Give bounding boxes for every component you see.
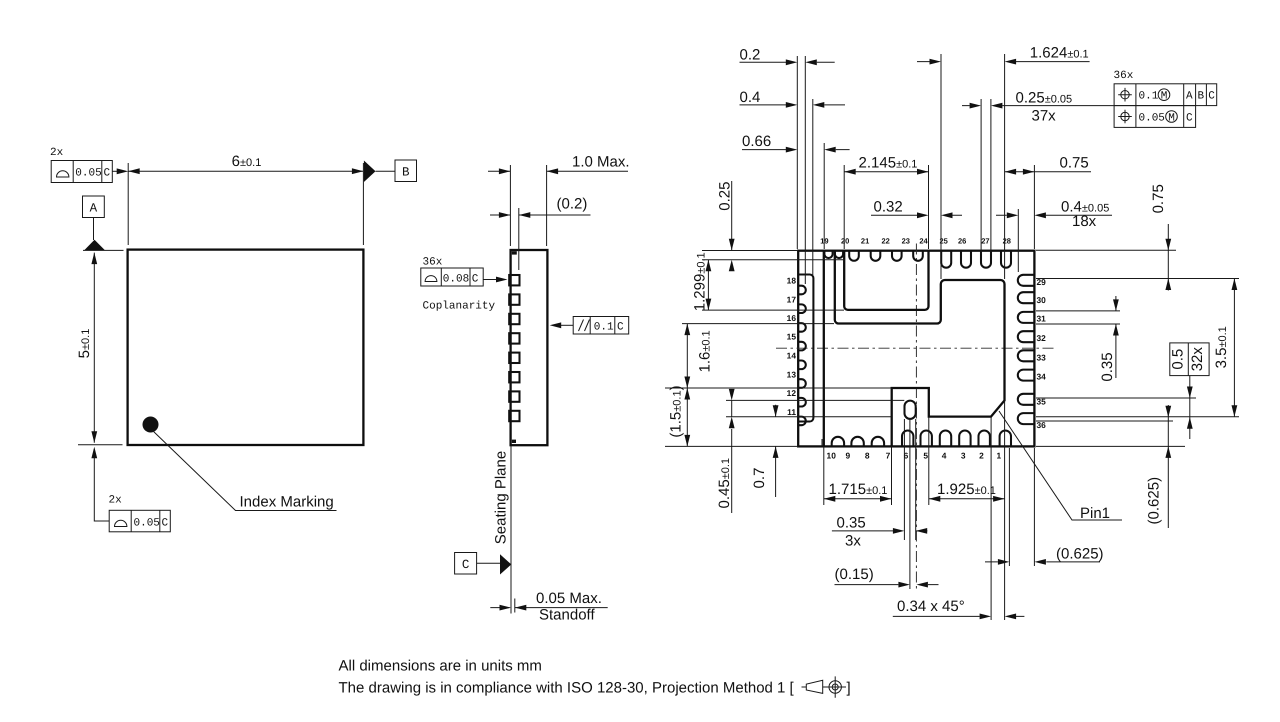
svg-text:Standoff: Standoff	[539, 606, 595, 623]
package body outline (top view)	[128, 250, 364, 445]
extension line pkg top right	[1036, 249, 1176, 251]
exposed pad main outline	[835, 251, 1005, 447]
extension line pad top right	[1036, 278, 1239, 280]
basic dimension 0.5 32x frame	[1170, 343, 1210, 439]
pin 1 leader	[999, 411, 1122, 522]
svg-text:32: 32	[1037, 333, 1047, 343]
svg-text:0.75: 0.75	[1060, 155, 1089, 172]
profile tolerance frame 2x bottom	[91, 447, 170, 532]
internal long slot line	[823, 251, 825, 447]
svg-text:(0.625): (0.625)	[1146, 477, 1163, 525]
datum B triangle	[364, 161, 395, 183]
extension line pin27 left	[980, 99, 982, 254]
svg-text:0.05: 0.05	[75, 168, 101, 180]
svg-text:0.35: 0.35	[1099, 352, 1116, 381]
top pin 24 slot	[913, 251, 923, 261]
svg-text:0.1: 0.1	[1139, 91, 1159, 103]
top pin 21 slot	[849, 251, 859, 261]
extension line oval top	[726, 399, 904, 401]
svg-text:C: C	[1186, 113, 1193, 125]
mold corner mark top	[512, 251, 517, 254]
bottom pin 6 slot	[902, 431, 913, 447]
dimension 0.2	[740, 47, 835, 66]
left pin 12 slot	[798, 398, 806, 407]
right pin 34 slot	[1018, 370, 1035, 381]
left pin 13 slot	[798, 379, 806, 388]
svg-text:C: C	[617, 321, 624, 333]
extension line top-left corner	[83, 249, 124, 251]
extension line pad A left	[843, 165, 845, 249]
side view leads (8 squares)	[509, 275, 519, 421]
extension line slot depth 0.25	[702, 259, 845, 261]
top pin 19 slot	[824, 251, 832, 258]
datum A label	[83, 196, 105, 218]
dimension 1.624±0.1	[917, 45, 1090, 65]
extension line pkg right down	[1033, 448, 1035, 566]
dimension (1.5±0.1)	[668, 385, 691, 446]
extension line pad A bottom right	[1036, 310, 1120, 312]
extension line pad right down	[1004, 401, 1006, 621]
extension line pkg bottom left	[665, 445, 797, 447]
svg-text:13: 13	[787, 369, 797, 379]
svg-text:1.0 Max.: 1.0 Max.	[572, 154, 630, 171]
extension line pkg bottom right	[1036, 445, 1185, 447]
bottom pin 2 slot	[979, 431, 990, 447]
extension line pad A right	[928, 165, 930, 249]
svg-text:0.1: 0.1	[594, 321, 614, 333]
svg-text:26: 26	[958, 237, 966, 246]
dimension (0.625) right vertical	[1146, 405, 1172, 528]
extension line strip edge 0.4	[812, 99, 814, 275]
extension line pin cap 0.2	[804, 56, 806, 284]
extension line pin36 center	[1036, 420, 1173, 422]
svg-text:0.2: 0.2	[740, 47, 761, 64]
datum C triangle	[477, 554, 512, 574]
dimension 0.45±0.1	[716, 389, 735, 513]
extension line pin29 cap	[1017, 209, 1019, 272]
svg-text:C: C	[104, 168, 111, 180]
extension line pad B bottom	[682, 323, 834, 325]
center line vertical	[915, 244, 917, 592]
dimension 0.4	[740, 89, 846, 108]
extension line oval left	[903, 419, 905, 540]
svg-text:2x: 2x	[109, 495, 123, 507]
dimension 0.25 left	[717, 181, 735, 271]
extension line tab right down	[928, 417, 930, 505]
package body outline (side view)	[511, 250, 548, 445]
svg-text:12: 12	[787, 388, 797, 398]
left pin 18 slot	[798, 286, 806, 295]
right pin 36 slot	[1018, 413, 1035, 424]
svg-text:3: 3	[961, 451, 966, 461]
dimension 0.75 right vertical	[1150, 184, 1171, 290]
oval slot near pin 6	[905, 401, 916, 419]
extension line slot line down	[823, 446, 825, 505]
dimension 0.7	[751, 405, 779, 497]
extension line oval center	[909, 419, 911, 589]
position tolerance frame 36x	[1114, 70, 1217, 127]
svg-text:34: 34	[1037, 372, 1047, 382]
mold corner mark bottom	[512, 440, 516, 443]
svg-text:M: M	[1168, 113, 1175, 125]
svg-text:0.08: 0.08	[443, 273, 469, 285]
datum C label	[455, 553, 477, 575]
svg-text:0.75: 0.75	[1150, 184, 1167, 213]
svg-text:M: M	[1161, 91, 1168, 103]
svg-text:C: C	[162, 517, 169, 529]
svg-text:18: 18	[787, 276, 797, 286]
svg-text:27: 27	[981, 237, 989, 246]
svg-text:0.5: 0.5	[1170, 349, 1187, 370]
dimension (0.625) bottom	[985, 546, 1104, 565]
svg-text:0.35: 0.35	[837, 515, 866, 532]
extension line pad left 1.624	[940, 54, 942, 279]
dimension 0.25±0.05 37x	[962, 90, 1114, 125]
svg-text:16: 16	[787, 313, 797, 323]
right pin 33 slot	[1018, 350, 1035, 361]
package outline (bottom view)	[798, 251, 1034, 447]
right pin 30 slot	[1018, 292, 1035, 303]
extension line above right corner	[362, 163, 364, 245]
svg-text:36: 36	[1037, 420, 1047, 430]
extension line top edge left	[702, 250, 797, 252]
svg-text:0.32: 0.32	[874, 199, 903, 216]
svg-text:0.25: 0.25	[717, 181, 734, 210]
svg-text:10: 10	[827, 451, 837, 461]
datum B label	[395, 160, 417, 182]
extension line pad right 1.624	[1004, 54, 1006, 279]
extension line pad B bottom right	[1036, 323, 1120, 325]
svg-text:32x: 32x	[1189, 347, 1206, 372]
top pin 26 slot	[961, 251, 971, 268]
svg-text:B: B	[1198, 91, 1205, 103]
dimension 0.32	[871, 199, 962, 219]
dimension (0.15)	[835, 566, 939, 588]
dimension 0.66	[742, 133, 850, 153]
dimension 0.34 x 45 chamfer	[893, 598, 1025, 619]
top pin 23 slot	[892, 251, 902, 261]
svg-text:0.7: 0.7	[751, 468, 768, 489]
svg-text:5: 5	[923, 451, 928, 461]
svg-text:18x: 18x	[1072, 213, 1097, 230]
svg-text:(0.15): (0.15)	[835, 566, 874, 583]
left pin 11 slot	[798, 417, 806, 426]
svg-text:A: A	[1186, 91, 1193, 103]
svg-text:0.05: 0.05	[134, 517, 160, 529]
svg-text:4: 4	[942, 451, 947, 461]
dimension 0.35 3x	[832, 515, 928, 550]
svg-text:37x: 37x	[1032, 108, 1057, 125]
dimension 0.4±0.05 18x	[996, 199, 1112, 231]
extension line tab top	[665, 387, 892, 389]
left pin 16 slot	[798, 323, 806, 332]
index marking leader	[153, 431, 337, 511]
seating plane line	[510, 445, 512, 613]
svg-text:33: 33	[1037, 352, 1047, 362]
right pin 32 slot	[1018, 331, 1035, 342]
svg-text:23: 23	[902, 237, 910, 246]
svg-text:20: 20	[841, 237, 849, 246]
dimension 1.299±0.1	[692, 252, 712, 311]
dimension 0.75 top	[1005, 155, 1091, 175]
dimension 1.925±0.1	[929, 481, 1005, 502]
svg-text:All dimensions are in units mm: All dimensions are in units mm	[339, 658, 542, 675]
dimension 1.6±0.1	[684, 324, 713, 388]
svg-text:Seating Plane: Seating Plane	[493, 451, 510, 544]
svg-text:17: 17	[787, 294, 797, 304]
left pin 15 slot	[798, 342, 806, 351]
svg-text:0.05: 0.05	[1139, 113, 1165, 125]
parallelism frame //|0.1|C	[550, 317, 629, 335]
extension line pad A bottom	[702, 309, 844, 311]
left pin 17 slot	[798, 304, 806, 313]
svg-text:0.4: 0.4	[740, 89, 761, 106]
svg-text:B: B	[402, 165, 410, 179]
left exposed pad strip	[798, 275, 813, 422]
dimension 5±0.1	[76, 253, 97, 443]
svg-text:22: 22	[882, 237, 890, 246]
dimension 3.5±0.1	[1213, 279, 1237, 417]
svg-text:]: ]	[847, 680, 851, 697]
extension line tab left down	[891, 446, 893, 505]
dimension 6±0.1	[128, 153, 363, 174]
svg-text:(0.625): (0.625)	[1056, 546, 1104, 563]
extension line pin1 right down	[1008, 448, 1010, 566]
dimension 1.0 Max.	[488, 154, 630, 175]
projection method symbol	[802, 676, 851, 697]
dimension (0.2)	[490, 196, 591, 218]
svg-text:0.05 Max.: 0.05 Max.	[536, 590, 602, 607]
internal slot foot step	[821, 439, 823, 446]
bottom pin 8 slot	[872, 437, 884, 447]
inner pad outline A	[844, 251, 928, 310]
svg-text:C: C	[472, 273, 479, 285]
dimension 1.715±0.1	[824, 481, 892, 502]
svg-text:1: 1	[996, 451, 1001, 461]
extension line oval right	[915, 419, 917, 540]
svg-text:11: 11	[787, 407, 796, 417]
dimension 0.35 right vertical	[1099, 296, 1119, 382]
svg-text:0.66: 0.66	[742, 133, 771, 150]
svg-text:14: 14	[787, 350, 797, 360]
right pin 29 slot	[1018, 275, 1035, 286]
bottom pin 9 slot	[851, 437, 863, 447]
svg-text:C: C	[462, 558, 470, 572]
bottom pin 5 slot	[921, 431, 932, 447]
extension line bottom-left corner	[78, 444, 123, 446]
right pin 31 slot	[1018, 312, 1035, 323]
svg-text:24: 24	[919, 237, 928, 246]
coplanarity frame 36x	[421, 257, 508, 313]
bottom pin 4 slot	[940, 431, 951, 447]
extension line pkg left edge up	[796, 56, 798, 249]
svg-text:2x: 2x	[50, 147, 64, 159]
bottom pin 3 slot	[959, 431, 970, 447]
top pin 28 slot	[1001, 251, 1011, 268]
svg-text:7: 7	[886, 451, 891, 461]
svg-text:C: C	[1208, 91, 1215, 103]
extension line pin27 right	[990, 99, 992, 254]
svg-text:(0.2): (0.2)	[557, 196, 588, 213]
svg-text:0.34 x 45°: 0.34 x 45°	[897, 598, 965, 615]
top pin 25 slot	[941, 251, 951, 268]
top pin 22 slot	[871, 251, 881, 261]
right pin 35 slot	[1018, 394, 1035, 405]
svg-text:Coplanarity: Coplanarity	[423, 301, 496, 313]
extension line above left corner	[127, 163, 129, 245]
svg-text:36x: 36x	[1114, 70, 1134, 82]
datum A triangle	[84, 218, 105, 251]
index marking dot	[143, 417, 159, 433]
extension line pkg right edge up	[1033, 165, 1035, 249]
left pin 14 slot	[798, 361, 806, 370]
svg-text:Pin1: Pin1	[1080, 505, 1110, 522]
standoff dimension 0.05 Max.	[490, 590, 607, 624]
extension line pad bottom right	[1036, 416, 1239, 418]
svg-text:30: 30	[1037, 295, 1047, 305]
top pin 20 slot	[835, 251, 843, 258]
center line horizontal	[776, 347, 1057, 349]
svg-text:The drawing is in compliance w: The drawing is in compliance with ISO 12…	[339, 680, 795, 697]
svg-text:9: 9	[845, 451, 850, 461]
svg-text:8: 8	[865, 451, 870, 461]
top pin 27 slot	[981, 251, 991, 268]
profile tolerance frame 2x top	[50, 147, 128, 183]
svg-text:A: A	[90, 201, 98, 215]
svg-text:21: 21	[861, 237, 869, 246]
bottom pin 10 slot	[832, 437, 844, 447]
svg-text:36x: 36x	[423, 257, 443, 269]
svg-text:3x: 3x	[845, 533, 861, 550]
extension line lead thickness	[518, 208, 520, 270]
svg-text:2: 2	[979, 451, 984, 461]
extension line slot 0.66	[823, 143, 825, 249]
extension lines body height	[510, 165, 546, 246]
bottom pin 1 slot	[1000, 431, 1011, 447]
extension line chamfer left down	[990, 417, 992, 620]
svg-text:31: 31	[1037, 313, 1047, 323]
extension line pad bottom left	[726, 416, 892, 418]
extension line pin35 center	[1036, 397, 1196, 399]
svg-text:15: 15	[787, 331, 797, 341]
svg-text:Index Marking: Index Marking	[240, 494, 334, 511]
svg-text:28: 28	[1003, 237, 1011, 246]
dimension 2.145±0.1	[844, 155, 928, 175]
